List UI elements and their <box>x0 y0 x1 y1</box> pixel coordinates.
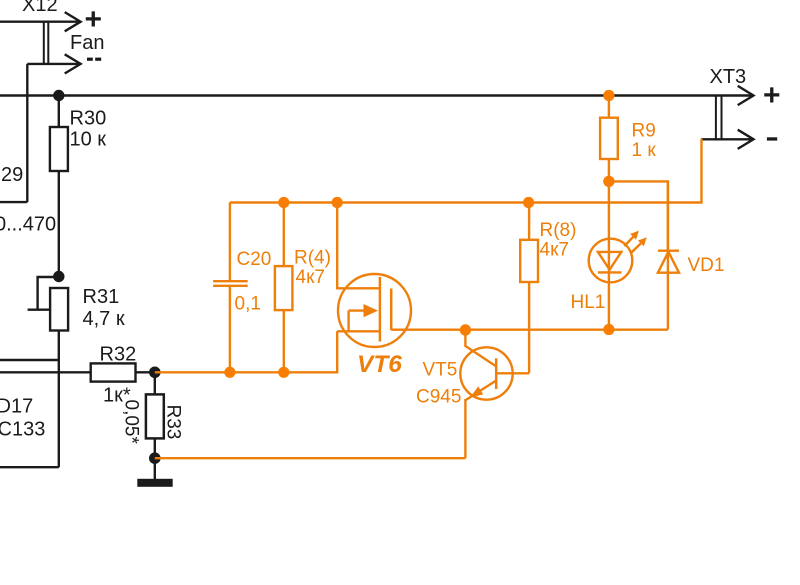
svg-text:R33: R33 <box>163 405 184 440</box>
transistor VT5 <box>460 347 512 399</box>
svg-text:C945: C945 <box>416 387 461 408</box>
connector XT3 minus arrowhead <box>738 130 754 149</box>
wire XT3 minus line <box>701 138 753 140</box>
svg-text:D17: D17 <box>0 396 33 418</box>
svg-text:0,1: 0,1 <box>235 294 261 315</box>
node junction C20 bottom <box>224 367 235 378</box>
node junction R4 bottom <box>278 367 289 378</box>
diode VD1 <box>667 181 669 329</box>
wire X12 minus pin line <box>27 63 79 65</box>
node junction gate VT5 collector <box>460 324 471 335</box>
node junction R33 emitter rail <box>149 452 161 464</box>
connector X12 double bar <box>44 21 49 65</box>
svg-text:VD1: VD1 <box>688 255 725 276</box>
connector X12 plus arrowhead <box>65 12 81 31</box>
resistor R33 <box>154 372 156 394</box>
node junction rail R9 <box>603 90 614 101</box>
wire orange top rail to XT3 minus <box>230 139 702 203</box>
node junction R30 R31 <box>53 271 64 282</box>
transistor VT6 mosfet <box>338 274 411 347</box>
resistor R31 trimmer <box>28 277 59 310</box>
svg-text:0...470: 0...470 <box>0 214 56 236</box>
connector XT3 plus arrowhead <box>738 86 754 105</box>
led HL1 <box>608 181 610 329</box>
wire R31 down <box>58 331 60 468</box>
wire to R32 <box>0 371 91 373</box>
node junction HL1 gate line <box>603 324 614 335</box>
box D17 bottom edge <box>0 466 59 468</box>
svg-text:R30: R30 <box>70 108 107 130</box>
svg-text:Fan: Fan <box>70 32 104 54</box>
resistor R30 <box>58 96 60 127</box>
svg-text:0,05*: 0,05* <box>121 400 142 445</box>
svg-text:4к7: 4к7 <box>540 240 569 261</box>
connector X12 minus arrowhead <box>65 54 81 73</box>
svg-text:HL1: HL1 <box>571 292 606 313</box>
resistor R9 <box>608 96 610 118</box>
left box edge (pin 29 module) <box>0 201 27 203</box>
svg-text:VT5: VT5 <box>423 360 458 381</box>
svg-text:R(4): R(4) <box>294 248 331 269</box>
node junction R32 R33 <box>149 367 161 379</box>
node junction rail R30 <box>53 90 64 101</box>
connector XT3 double bar <box>716 95 722 140</box>
node junction rail R8 <box>523 197 534 208</box>
wire orange bottom rail R32 to VT6 source <box>155 331 337 372</box>
wire VT6 gate line to VD1 corner <box>391 329 668 331</box>
svg-text:R9: R9 <box>632 121 656 142</box>
wire X12 plus pin line <box>0 21 80 23</box>
wire main top rail <box>0 94 753 96</box>
wire orange emitter rail to R33 <box>155 457 466 459</box>
svg-text:VT6: VT6 <box>357 351 402 378</box>
svg-text:4к7: 4к7 <box>296 267 325 288</box>
svg-text:R32: R32 <box>100 344 137 366</box>
wire R9 node to VD1 <box>609 181 668 250</box>
label minus-minus X12 <box>87 58 93 61</box>
svg-text:X12: X12 <box>22 0 58 16</box>
wire from X12 minus down left box <box>26 64 28 202</box>
node junction rail VT6 drain <box>332 197 343 208</box>
resistor R32 <box>91 363 136 381</box>
ground <box>154 458 156 479</box>
svg-text:R(8): R(8) <box>540 220 577 241</box>
svg-text:C20: C20 <box>237 249 272 270</box>
svg-text:4,7 к: 4,7 к <box>83 308 125 330</box>
svg-text:R31: R31 <box>83 286 120 308</box>
box D17 top edge <box>0 359 59 361</box>
svg-text:10 к: 10 к <box>70 129 107 151</box>
label minus sign XT3 <box>767 137 777 140</box>
svg-text:XT3: XT3 <box>710 66 747 88</box>
capacitor C20 <box>229 286 231 372</box>
resistor R(8) <box>528 203 530 240</box>
node junction R9 HL1 VD1 <box>603 176 614 187</box>
svg-text:+: + <box>763 79 781 112</box>
resistor R(4) <box>283 203 285 267</box>
svg-text:1 к: 1 к <box>632 140 657 161</box>
node junction rail R4 <box>278 197 289 208</box>
svg-text:C133: C133 <box>0 419 45 441</box>
svg-text:29: 29 <box>1 164 23 186</box>
